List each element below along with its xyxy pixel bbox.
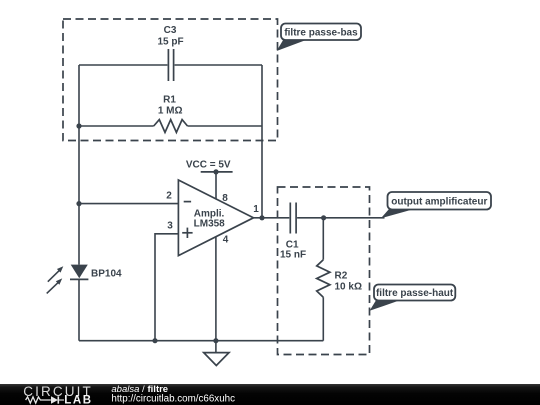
VCC supply bar (201, 171, 233, 173)
svg-text:filtre passe-haut: filtre passe-haut (376, 288, 454, 299)
wire pin 3 (155, 234, 178, 341)
wire bottom loop right segment (188, 125, 263, 127)
junction node pin4 at bottom wire (213, 338, 218, 343)
wire C1 to R2 junction (297, 217, 384, 219)
junction node at R1 bottom left (76, 123, 81, 128)
svg-text:BP104: BP104 (91, 268, 122, 279)
callout filtre passe-bas tail (277, 39, 310, 52)
svg-text:VCC = 5V: VCC = 5V (186, 159, 231, 170)
svg-text:1 MΩ: 1 MΩ (158, 106, 183, 117)
wire R2 top lead (322, 218, 324, 260)
callout output amplificateur tail (381, 209, 416, 219)
junction node R2 top (321, 215, 326, 220)
svg-text:R1: R1 (163, 94, 176, 105)
svg-text:C3: C3 (164, 25, 177, 36)
svg-text:3: 3 (167, 221, 173, 232)
callout output amplificateur box (388, 192, 492, 210)
callout filtre passe-haut tail (370, 300, 402, 311)
junction node pin3 at bottom wire (152, 338, 157, 343)
svg-text:4: 4 (223, 235, 229, 246)
footer logo resistor glyph (26, 397, 51, 403)
wire top loop right segment (175, 64, 262, 66)
dashed box filtre passe-bas (63, 19, 278, 141)
node output junction (259, 215, 264, 220)
wire op-amp output lead (253, 217, 289, 219)
op-amp plus input mark (182, 228, 192, 238)
wire feedback vertical (261, 65, 263, 218)
wire left rail upper (78, 65, 80, 265)
wire top loop left segment (79, 64, 167, 66)
op-amp minus input mark (184, 201, 191, 203)
svg-text:8: 8 (222, 193, 228, 204)
svg-text:LAB: LAB (64, 394, 91, 405)
svg-text:filtre passe-bas: filtre passe-bas (284, 27, 358, 38)
VCC node dot (213, 169, 218, 174)
wire pin 2 (79, 203, 178, 205)
svg-text:10 kΩ: 10 kΩ (335, 281, 362, 292)
resistor R1 (154, 120, 188, 133)
capacitor C1 (290, 203, 296, 234)
svg-text:R2: R2 (335, 271, 348, 282)
dashed box filtre passe-haut (278, 187, 370, 355)
wire left rail lower (78, 279, 80, 340)
capacitor C3 (168, 49, 173, 81)
resistor R2 (317, 260, 330, 298)
wire VCC stem to pin 8 (215, 172, 217, 199)
svg-text:15 nF: 15 nF (280, 249, 306, 260)
junction node at pin 2 wire (76, 201, 81, 206)
wire pin 4 to ground rail (215, 237, 217, 353)
svg-text:http://circuitlab.com/c66xuhc: http://circuitlab.com/c66xuhc (111, 394, 235, 405)
svg-text:2: 2 (166, 191, 172, 202)
wire bottom loop left segment (79, 125, 154, 127)
wire bottom rail (79, 340, 323, 342)
wire R2 bottom lead (322, 297, 324, 341)
svg-text:LM358: LM358 (194, 219, 226, 230)
callout filtre passe-bas box (281, 24, 361, 41)
callout filtre passe-haut box (374, 285, 455, 301)
photodiode D1 BP104 (47, 265, 89, 294)
svg-text:1: 1 (253, 204, 259, 215)
op-amp U1 LM358 (178, 180, 253, 256)
ground (204, 353, 229, 366)
footer bar (0, 384, 540, 405)
svg-text:output amplificateur: output amplificateur (391, 196, 487, 207)
svg-text:15 pF: 15 pF (157, 37, 183, 48)
footer logo diode glyph (51, 396, 64, 403)
